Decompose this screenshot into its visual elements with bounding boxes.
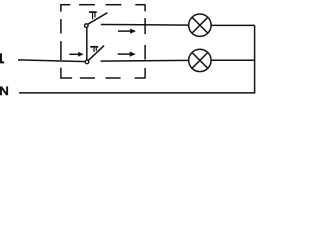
dashed enclosure right edge <box>144 5 146 78</box>
dashed enclosure left edge <box>60 5 62 78</box>
dashed enclosure (switch unit outline) top edge <box>60 4 145 6</box>
wire: upper switch output to lamp E1 <box>101 24 189 27</box>
dashed enclosure bottom edge <box>60 77 145 79</box>
node label L <box>0 53 4 63</box>
switch S2 (lower) lever <box>88 46 104 61</box>
arrow A2 (lower left, into switch S2) <box>69 52 83 57</box>
wire: right return bus <box>254 25 256 93</box>
switch S1 (upper) lever <box>88 13 108 25</box>
switch S1 hinge <box>85 24 89 28</box>
wire: L feed from label to lower switch hinge <box>18 60 87 62</box>
lamp E1 <box>189 14 211 36</box>
switch S1 actuator T bar <box>89 11 97 13</box>
wire: lower switch output to lamp E2 <box>101 59 189 62</box>
switch S2 hinge <box>85 60 89 64</box>
arrow A3 (lower right, inside enclosure) <box>118 52 136 57</box>
switch S2 actuator stem (double line) <box>93 48 95 52</box>
lamp E2 <box>189 49 211 71</box>
switch S1 actuator stem (double line) <box>92 13 94 19</box>
wire: lamp E1 to right bus <box>211 24 255 26</box>
switch S2 actuator T bar <box>90 46 98 48</box>
wire: vertical connector between switch hinges <box>86 26 88 62</box>
arrow A1 (upper, inside enclosure) <box>118 29 136 34</box>
wire: lamp E2 to right bus <box>211 59 255 61</box>
node label N <box>0 86 8 95</box>
wire: N line <box>19 92 255 94</box>
